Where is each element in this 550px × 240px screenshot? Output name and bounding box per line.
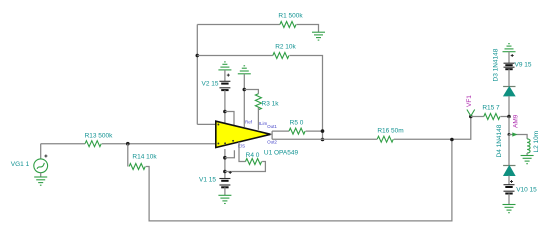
ground VG1 bbox=[34, 177, 47, 185]
node R2 tap bbox=[196, 54, 200, 58]
node V- branch bbox=[223, 156, 227, 160]
svg-text:R15 7: R15 7 bbox=[482, 105, 500, 112]
svg-text:VG1 1: VG1 1 bbox=[11, 161, 30, 168]
wire out stub bbox=[271, 131, 273, 139]
svg-text:V2 15: V2 15 bbox=[202, 81, 219, 88]
wire V9 to D3 bbox=[508, 69, 510, 86]
wire V- branch bbox=[225, 150, 235, 157]
resistor R14 bbox=[129, 164, 145, 170]
plus V2 bbox=[227, 74, 230, 77]
node feedback upper bbox=[321, 129, 325, 133]
ground flipped above V2 bbox=[218, 62, 231, 70]
wire +In bbox=[197, 123, 216, 125]
wire out1 to R5 bbox=[272, 130, 289, 132]
ground V10 bbox=[503, 205, 516, 213]
resistor R5 bbox=[289, 128, 305, 134]
node R13/R14 junction bbox=[126, 142, 130, 146]
node feedback lower bbox=[321, 138, 325, 142]
node V1/R4 return bbox=[223, 170, 227, 174]
svg-text:Out1: Out1 bbox=[267, 124, 277, 129]
wire to R3 top bbox=[244, 90, 258, 94]
svg-text:R2 10k: R2 10k bbox=[275, 44, 296, 51]
plus VG1 bbox=[44, 155, 47, 158]
wire R5 to feedback node bbox=[306, 130, 323, 132]
resistor R3 bbox=[255, 94, 261, 110]
svg-text:AM9: AM9 bbox=[513, 114, 520, 128]
svg-text:V10 15: V10 15 bbox=[516, 187, 537, 194]
svg-text:L2 10m: L2 10m bbox=[533, 131, 540, 153]
wire node to D4 bbox=[508, 135, 510, 166]
svg-text:R3 1k: R3 1k bbox=[262, 101, 280, 108]
wire Ref vertical bbox=[243, 74, 245, 127]
wire D4 to V10 bbox=[508, 176, 510, 185]
plus V10 bbox=[510, 180, 513, 183]
ground R1 bbox=[312, 32, 325, 40]
svg-text:U1 OPA549: U1 OPA549 bbox=[264, 150, 299, 157]
svg-text:Out2: Out2 bbox=[267, 139, 277, 144]
wire V+ branch bbox=[225, 112, 234, 126]
node V+ branch bbox=[223, 110, 227, 114]
wire L2 to ground bbox=[526, 153, 528, 156]
ammeter AM9 bbox=[512, 132, 517, 136]
svg-text:D3 1N4148: D3 1N4148 bbox=[493, 48, 500, 81]
plus V9 bbox=[511, 54, 514, 57]
node VF1 bbox=[469, 115, 473, 119]
svg-text:D4 1N4148: D4 1N4148 bbox=[496, 124, 503, 157]
svg-text:Ref: Ref bbox=[245, 120, 253, 125]
wire out2 long bbox=[272, 138, 377, 140]
battery V2 bbox=[219, 81, 230, 90]
wire R3 bottom to ILim bbox=[257, 108, 259, 130]
source VG1 bbox=[34, 159, 48, 173]
svg-text:R14 10k: R14 10k bbox=[132, 154, 157, 161]
wire V1 to ground bbox=[224, 187, 226, 195]
plus V1 bbox=[229, 171, 232, 174]
svg-text:V1 15: V1 15 bbox=[199, 177, 216, 184]
wire VG1 to ground bbox=[40, 173, 42, 177]
resistor R16 bbox=[377, 136, 393, 142]
op-amp U1 bbox=[216, 121, 271, 147]
wire R1 right to ground bbox=[297, 25, 319, 33]
wire E/S drop bbox=[239, 142, 246, 162]
wire R13 to op-amp -In bbox=[102, 143, 216, 145]
wire R14 to bottom rail bbox=[146, 140, 452, 221]
wire R2 right + feedback vertical bbox=[289, 56, 322, 140]
wire V10 to ground bbox=[508, 194, 510, 205]
svg-text:R13 500k: R13 500k bbox=[85, 133, 114, 140]
svg-text:VF1: VF1 bbox=[466, 95, 473, 107]
resistor R13 bbox=[85, 141, 101, 147]
wire D3 to node bbox=[508, 96, 510, 117]
wire node to AM branch bbox=[508, 117, 510, 135]
wire R4 return bbox=[225, 162, 266, 172]
wire V2 to V+ pin bbox=[224, 90, 226, 123]
diode D4 bbox=[503, 165, 515, 167]
svg-text:R5 0: R5 0 bbox=[290, 120, 304, 127]
diode D3 bbox=[503, 86, 515, 88]
ground flipped above V9 bbox=[503, 44, 516, 52]
wire AM9 branch bbox=[509, 135, 527, 139]
resistor R2 bbox=[273, 53, 289, 59]
wire R1 row left bbox=[197, 24, 280, 26]
battery V10 bbox=[504, 185, 515, 194]
ground V1 bbox=[218, 195, 231, 203]
ground L2 bbox=[521, 156, 534, 164]
wire V2 stub bbox=[224, 70, 226, 81]
wire to R15 bbox=[471, 116, 484, 118]
wire V9 stub bbox=[508, 52, 510, 64]
wire R15 right bbox=[500, 116, 509, 118]
svg-text:V9 15: V9 15 bbox=[515, 62, 532, 69]
wire VG1 top stub bbox=[40, 144, 42, 159]
wire R2 row left bbox=[197, 55, 272, 57]
inductor L2 bbox=[527, 139, 530, 153]
probe VF1 bbox=[467, 110, 475, 117]
resistor R15 bbox=[484, 114, 500, 120]
wire left horizontal to R13 bbox=[41, 143, 85, 145]
node AM branch bbox=[508, 133, 511, 136]
svg-text:R16 50m: R16 50m bbox=[377, 128, 403, 135]
wire R16 right bbox=[394, 117, 471, 140]
resistor R1 bbox=[280, 22, 296, 28]
wire top-left vertical bbox=[196, 25, 198, 125]
node D3/R15 bbox=[507, 115, 511, 119]
wire R14 drop bbox=[127, 144, 129, 167]
battery V1 bbox=[219, 179, 230, 188]
ground flipped above Ref bbox=[238, 66, 251, 74]
battery V9 bbox=[504, 63, 515, 69]
resistor R4 bbox=[246, 159, 262, 165]
svg-text:R1 500k: R1 500k bbox=[278, 13, 303, 20]
node bottom return bbox=[450, 138, 454, 142]
svg-text:R4 0: R4 0 bbox=[246, 152, 260, 159]
wire V- column bbox=[224, 149, 226, 178]
node Ref/R3 bbox=[243, 88, 247, 92]
